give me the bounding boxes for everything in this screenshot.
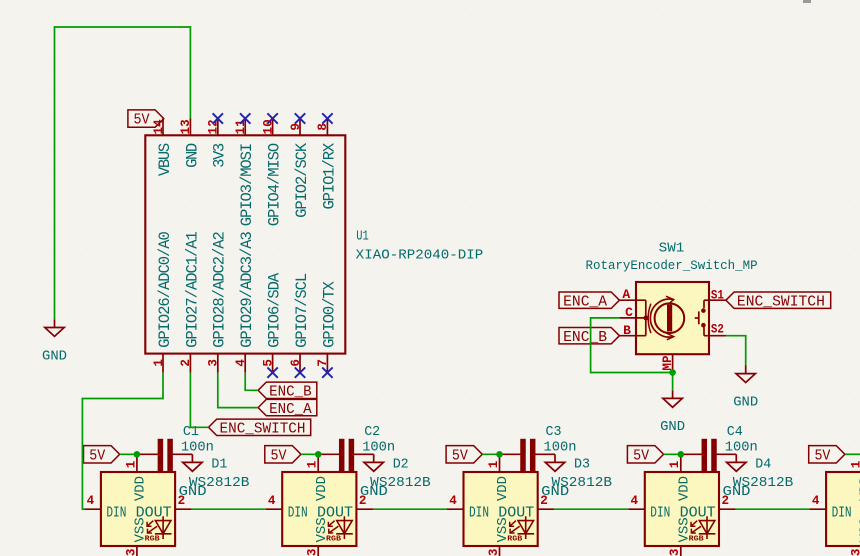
svg-text:RGB: RGB [326, 536, 342, 544]
svg-text:5V: 5V [633, 448, 649, 464]
svg-text:RotaryEncoder_Switch_MP: RotaryEncoder_Switch_MP [586, 258, 758, 273]
svg-text:1: 1 [487, 460, 501, 468]
svg-text:S2: S2 [711, 321, 724, 336]
svg-text:U1: U1 [356, 229, 369, 245]
svg-text:B: B [623, 323, 631, 338]
svg-text:1: 1 [850, 460, 860, 468]
svg-text:3: 3 [306, 549, 320, 556]
svg-text:5V: 5V [89, 448, 105, 464]
svg-text:GPIO3/MOSI: GPIO3/MOSI [238, 143, 256, 226]
svg-text:GPIO28/ADC2/A2: GPIO28/ADC2/A2 [211, 231, 229, 348]
svg-text:C: C [625, 305, 633, 320]
svg-text:5: 5 [261, 359, 275, 367]
svg-text:A: A [622, 287, 630, 302]
svg-text:XIAO-RP2040-DIP: XIAO-RP2040-DIP [356, 247, 484, 263]
svg-text:11: 11 [234, 119, 248, 135]
svg-text:100n: 100n [544, 439, 577, 455]
svg-text:VBUS: VBUS [156, 143, 174, 176]
svg-text:WS2812B: WS2812B [552, 475, 613, 491]
svg-text:3: 3 [487, 549, 501, 556]
svg-text:WS2812B: WS2812B [189, 475, 250, 491]
svg-text:1: 1 [668, 460, 682, 468]
svg-text:RGB: RGB [689, 536, 705, 544]
svg-text:2: 2 [540, 494, 548, 508]
svg-text:3: 3 [207, 359, 221, 367]
svg-text:1: 1 [152, 359, 166, 367]
svg-text:GND: GND [733, 394, 758, 410]
svg-text:GPIO1/RX: GPIO1/RX [320, 142, 338, 209]
svg-text:D2: D2 [393, 456, 409, 472]
svg-text:GND: GND [42, 348, 67, 364]
svg-text:DIN: DIN [650, 505, 670, 521]
svg-text:4: 4 [449, 494, 457, 508]
svg-text:DIN: DIN [288, 505, 308, 521]
svg-text:100n: 100n [362, 439, 395, 455]
svg-text:3: 3 [124, 549, 138, 556]
svg-text:C3: C3 [546, 424, 562, 440]
svg-text:3: 3 [850, 549, 860, 556]
svg-text:5V: 5V [271, 448, 287, 464]
svg-text:ENC_A: ENC_A [563, 294, 607, 310]
svg-text:DIN: DIN [832, 505, 852, 521]
svg-text:C4: C4 [727, 424, 743, 440]
svg-text:4: 4 [631, 494, 639, 508]
svg-text:7: 7 [316, 359, 330, 367]
svg-text:4: 4 [812, 494, 820, 508]
svg-text:4: 4 [268, 494, 276, 508]
svg-text:S1: S1 [711, 287, 724, 302]
svg-text:GPIO2/SCK: GPIO2/SCK [293, 142, 311, 218]
svg-text:13: 13 [179, 119, 193, 134]
svg-text:C2: C2 [364, 424, 380, 440]
svg-text:GPIO27/ADC1/A1: GPIO27/ADC1/A1 [183, 231, 201, 348]
svg-text:GND: GND [660, 419, 685, 435]
svg-text:8: 8 [316, 123, 330, 131]
svg-text:GPIO7/SCL: GPIO7/SCL [293, 273, 311, 348]
svg-text:DIN: DIN [469, 505, 489, 521]
svg-text:2: 2 [179, 359, 193, 367]
svg-text:GND: GND [183, 143, 201, 168]
svg-text:ENC_SWITCH: ENC_SWITCH [737, 294, 825, 310]
svg-text:VDD: VDD [314, 476, 330, 501]
svg-text:D4: D4 [755, 456, 771, 472]
svg-text:VDD: VDD [133, 476, 149, 501]
svg-text:4: 4 [234, 359, 248, 367]
svg-text:GPIO0/TX: GPIO0/TX [320, 280, 338, 347]
svg-text:ENC_SWITCH: ENC_SWITCH [220, 422, 306, 438]
svg-text:2: 2 [359, 494, 367, 508]
svg-text:GPIO4/MISO: GPIO4/MISO [266, 143, 284, 226]
svg-text:3: 3 [668, 549, 682, 556]
svg-text:5V: 5V [814, 448, 830, 464]
svg-text:GPIO26/ADC0/A0: GPIO26/ADC0/A0 [156, 231, 174, 348]
svg-text:D3: D3 [574, 456, 590, 472]
svg-text:DIN: DIN [106, 505, 126, 521]
svg-text:100n: 100n [725, 439, 758, 455]
svg-text:4: 4 [87, 494, 95, 508]
svg-text:MP: MP [661, 355, 675, 371]
svg-text:VDD: VDD [676, 476, 692, 501]
svg-text:RGB: RGB [507, 536, 523, 544]
svg-text:5V: 5V [452, 448, 468, 464]
svg-text:100n: 100n [181, 439, 214, 455]
svg-text:VDD: VDD [495, 476, 511, 501]
svg-text:6: 6 [289, 359, 303, 367]
svg-text:2: 2 [178, 494, 186, 508]
svg-text:RGB: RGB [145, 536, 161, 544]
svg-text:5V: 5V [134, 113, 150, 129]
svg-text:GPIO6/SDA: GPIO6/SDA [266, 272, 284, 348]
svg-text:WS2812B: WS2812B [370, 475, 431, 491]
svg-text:ENC_A: ENC_A [269, 402, 312, 418]
svg-text:SW1: SW1 [659, 240, 685, 256]
svg-text:2: 2 [722, 494, 730, 508]
svg-text:1: 1 [124, 460, 138, 468]
svg-text:3V3: 3V3 [211, 143, 229, 168]
svg-text:ENC_B: ENC_B [563, 330, 607, 346]
svg-text:GPIO29/ADC3/A3: GPIO29/ADC3/A3 [238, 231, 256, 348]
svg-text:WS2812B: WS2812B [733, 475, 794, 491]
svg-text:9: 9 [289, 123, 303, 131]
svg-text:1: 1 [306, 460, 320, 468]
svg-text:D1: D1 [211, 456, 227, 472]
svg-text:ENC_B: ENC_B [269, 385, 312, 401]
